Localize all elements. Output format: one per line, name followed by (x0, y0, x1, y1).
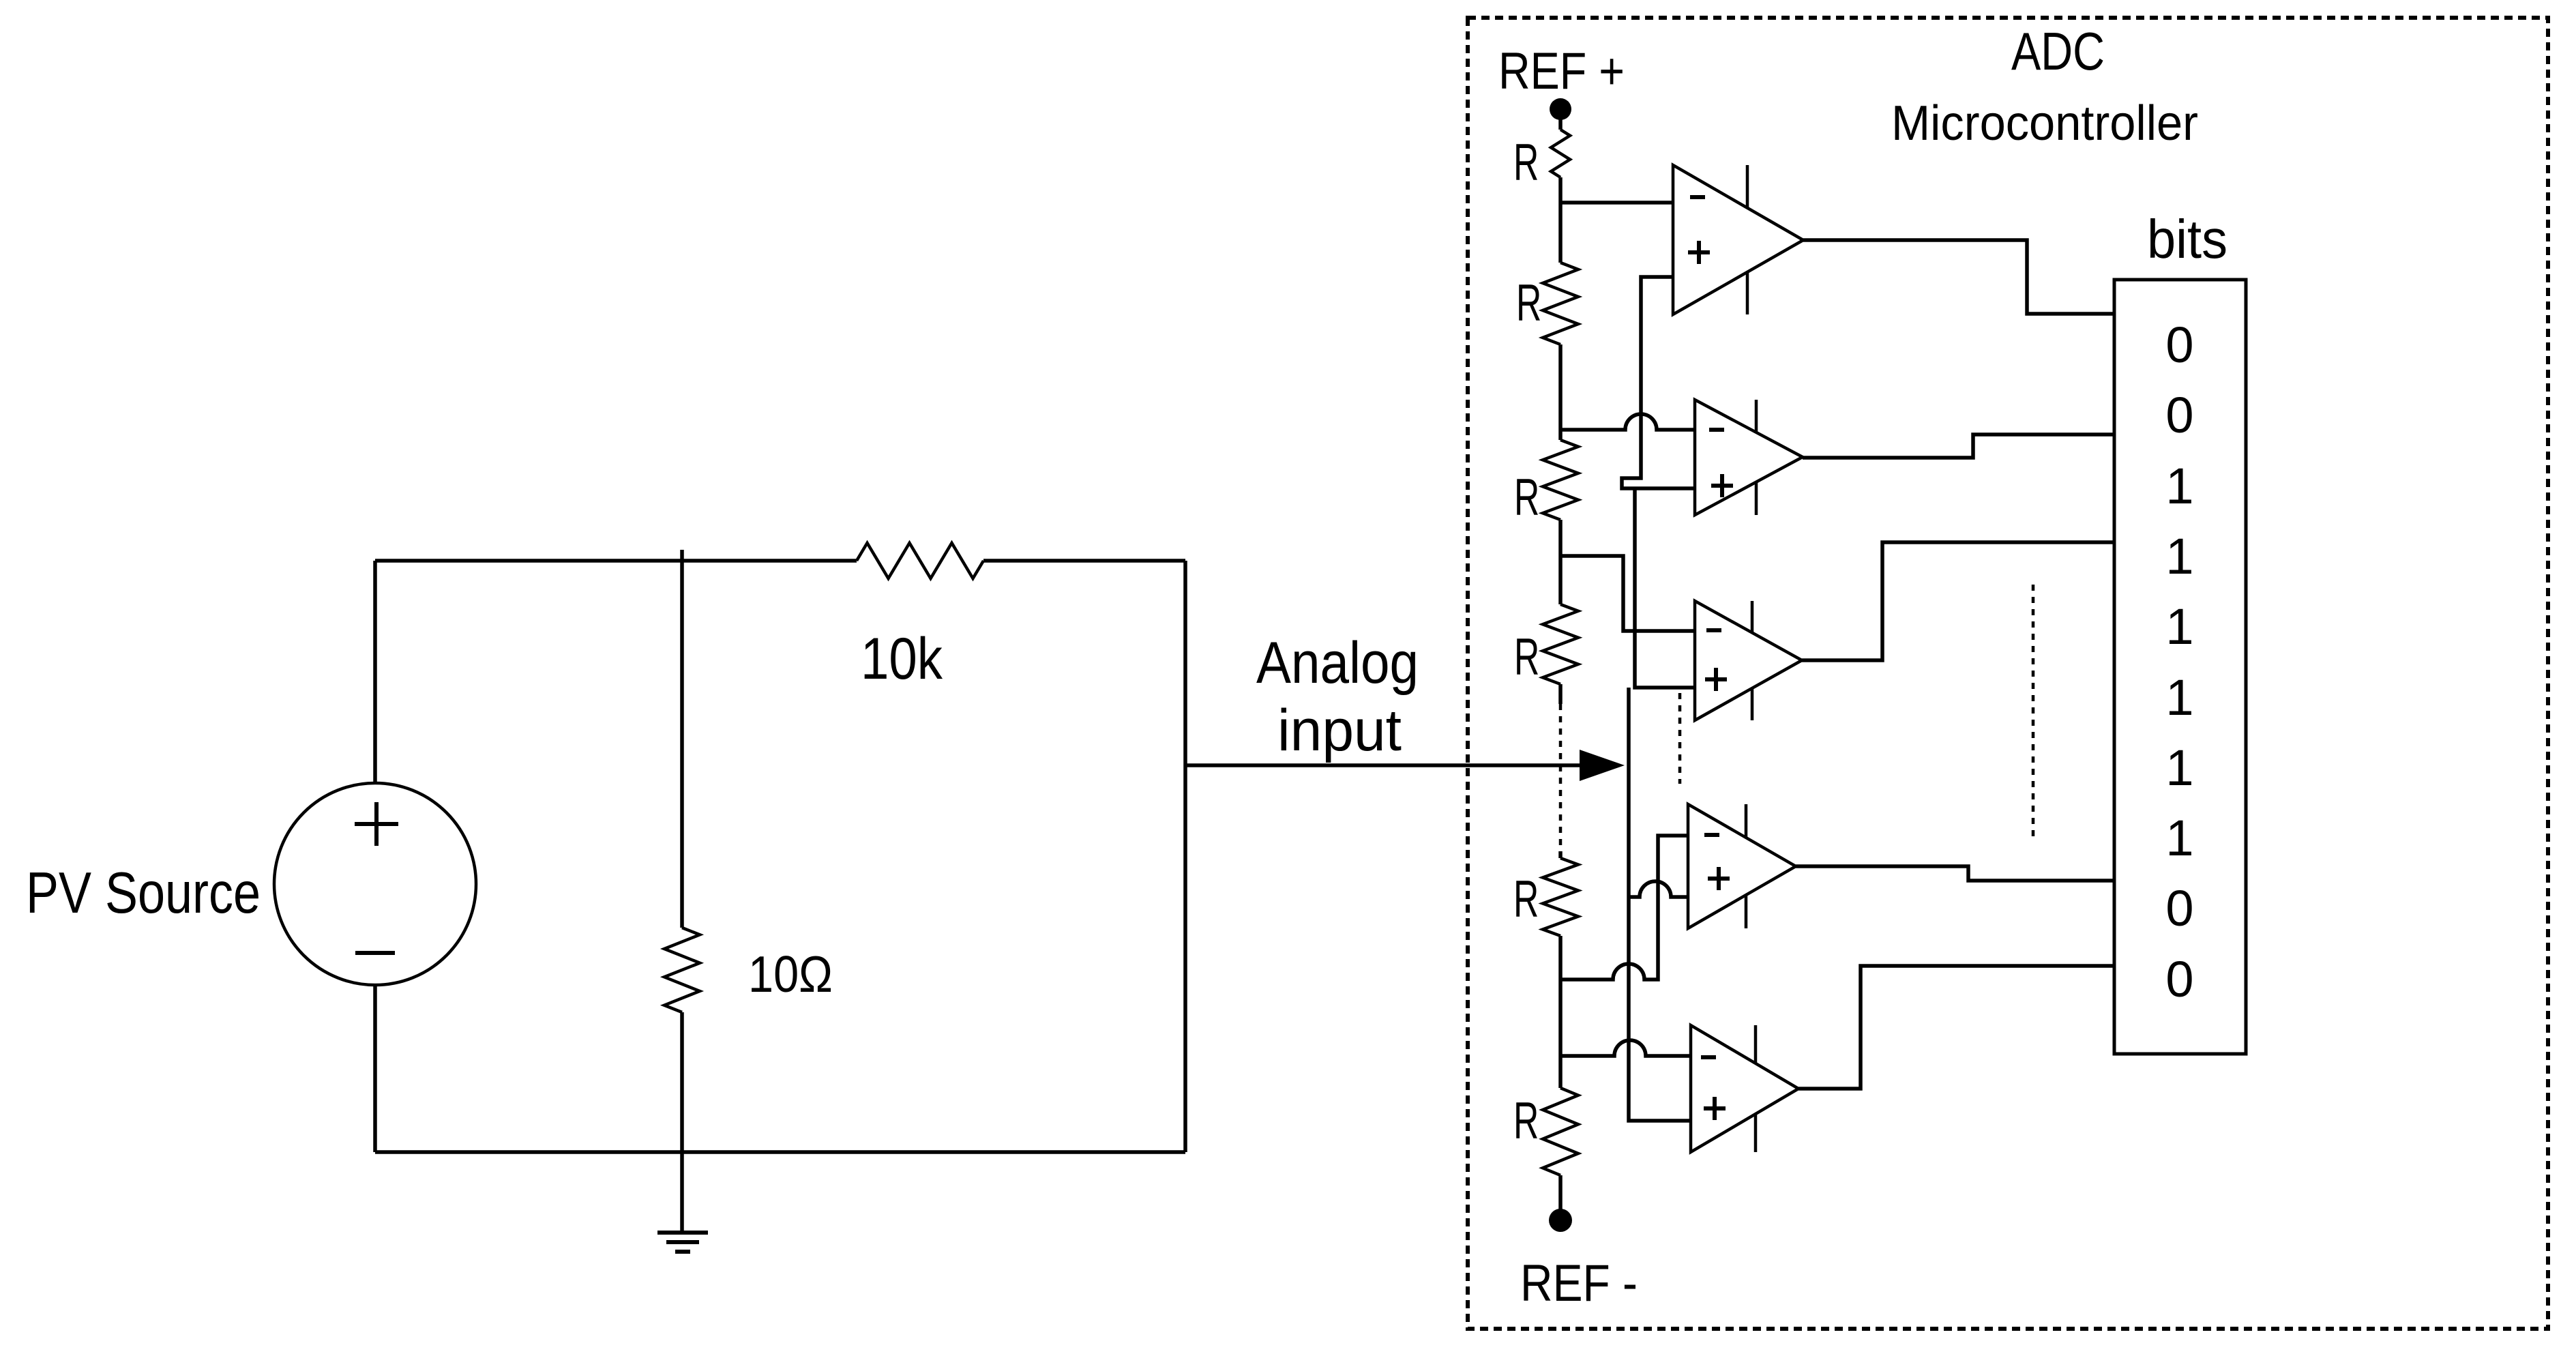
svg-text:PV Source: PV Source (26, 861, 261, 926)
arrowhead analog input (1580, 750, 1625, 781)
wire output comparator 4 (1796, 866, 2114, 881)
wire shunt branch upper (680, 550, 684, 928)
resistor R5 (1513, 858, 1578, 936)
svg-text:0: 0 (2165, 387, 2193, 443)
svg-text:0: 0 (2165, 951, 2193, 1007)
wire to ground (680, 1152, 684, 1233)
resistor R6 (1513, 1088, 1578, 1175)
svg-text:R: R (1513, 133, 1539, 191)
wire analog bus lower (1629, 688, 1691, 1121)
wire analog bus upper (1622, 277, 1695, 488)
wire ref+ stub (1558, 109, 1563, 130)
svg-text:R: R (1513, 870, 1539, 928)
wire ladder seg2 (1558, 344, 1563, 440)
svg-text:0: 0 (2165, 880, 2193, 937)
wire ref- stub (1558, 1175, 1563, 1211)
wire bus branch to comparator 4 + (hop over tap4 riser) (1629, 881, 1688, 897)
wire shunt branch lower (680, 1012, 684, 1152)
wire ladder continuation (dashed) (1558, 684, 1563, 704)
svg-text:1: 1 (2165, 458, 2193, 514)
svg-text:1: 1 (2165, 669, 2193, 726)
wire ladder seg1 (1558, 177, 1563, 263)
op-amp U2 (1695, 400, 1803, 515)
wire top left (node between source and 10k) (375, 559, 857, 563)
wire below source (373, 985, 377, 1152)
wire output comparator 5 (1798, 966, 2114, 1089)
node tap4 wire to comparator 4 (hop over bus, up) (1560, 836, 1688, 980)
resistor R3 (1514, 440, 1578, 526)
wire left vertical (373, 561, 377, 784)
resistor R1 (1513, 130, 1570, 191)
dashed continuation marker near outputs (2032, 585, 2035, 842)
op-amp U1 (1673, 165, 1803, 314)
node REF+ dot (1550, 98, 1571, 120)
svg-text:R: R (1514, 468, 1539, 526)
wire analog bus middle (1635, 488, 1695, 688)
wire bottom (375, 1150, 1185, 1154)
svg-text:Microcontroller: Microcontroller (1891, 96, 2198, 151)
op-amp U5 (1691, 1025, 1798, 1152)
wire output comparator 2 (1803, 435, 2114, 458)
dashed continuation marker near inputs (1678, 693, 1682, 784)
op-amp U4 (1688, 804, 1796, 928)
wire right vertical of left loop (1183, 561, 1187, 1152)
svg-text:R: R (1514, 628, 1539, 686)
wire ladder seg5 (1558, 936, 1563, 1088)
svg-text:R: R (1513, 1091, 1539, 1149)
wire output comparator 3 (1802, 542, 2114, 660)
svg-text:ADC: ADC (2011, 21, 2105, 81)
svg-text:0: 0 (2165, 317, 2193, 373)
svg-text:1: 1 (2165, 810, 2193, 866)
node tap1 wire to comparator 1 (1560, 201, 1673, 205)
wire ladder seg3 (1558, 520, 1563, 604)
wire top right (983, 559, 1185, 563)
svg-text:R: R (1516, 274, 1541, 332)
svg-text:bits: bits (2147, 209, 2227, 269)
svg-text:1: 1 (2165, 739, 2193, 796)
label Analog input (1256, 630, 1419, 763)
node tap5 wire to comparator 5 (hop over bus) (1560, 1040, 1691, 1056)
node tap2 wire to comparator 2 (hop over bus) (1560, 414, 1695, 430)
wire output comparator 1 (1803, 240, 2114, 314)
svg-text:1: 1 (2165, 528, 2193, 585)
wire analog input (1185, 763, 1582, 767)
bits box (2114, 280, 2246, 1054)
voltage source PV circle (274, 783, 476, 985)
node REF- dot (1549, 1209, 1572, 1232)
resistor R2 (1516, 263, 1578, 344)
op-amp U3 (1695, 601, 1802, 720)
svg-text:REF +: REF + (1498, 42, 1625, 100)
node tap3 wire to comparator 3 (1560, 556, 1695, 631)
resistor 10k (857, 543, 983, 692)
ADC microcontroller dashed box (1468, 18, 2548, 1329)
resistor 10Ω (664, 928, 833, 1012)
resistor R4 (1514, 604, 1578, 686)
svg-text:input: input (1277, 698, 1402, 763)
svg-text:10k: 10k (861, 626, 943, 692)
svg-text:Analog: Analog (1256, 630, 1419, 696)
svg-text:REF -: REF - (1520, 1254, 1638, 1312)
svg-text:1: 1 (2165, 598, 2193, 655)
svg-text:10Ω: 10Ω (748, 945, 833, 1003)
ground (657, 1233, 708, 1252)
